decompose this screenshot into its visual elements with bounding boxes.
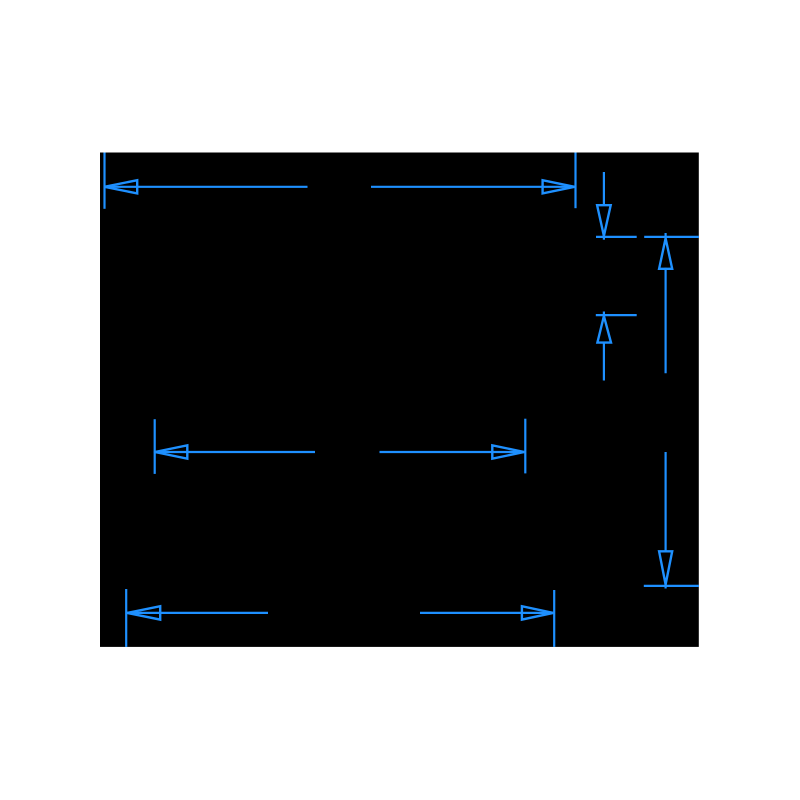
upper witness line left segment xyxy=(596,236,637,238)
small gap dimension up arrowhead xyxy=(597,316,611,343)
small gap dimension down arrowhead xyxy=(597,205,611,236)
height dimension line upper segment xyxy=(664,268,666,374)
bottom dimension left extension line xyxy=(125,589,127,647)
small gap dimension upper leader line xyxy=(603,172,605,206)
bottom dimension right extension line xyxy=(553,590,555,647)
lower witness line xyxy=(596,314,637,316)
middle dimension right extension line xyxy=(524,419,526,474)
height dimension down arrowhead xyxy=(659,551,672,584)
small gap dimension lower leader line xyxy=(603,342,605,381)
bottom dimension line right segment xyxy=(420,612,554,614)
device silhouette rectangle xyxy=(100,153,699,647)
height dimension line lower segment xyxy=(664,452,666,552)
middle dimension line right segment xyxy=(380,451,526,453)
middle dimension line left segment xyxy=(154,451,315,453)
top dimension right arrowhead xyxy=(543,180,575,193)
middle dimension right arrowhead xyxy=(492,445,524,458)
top dimension right extension line xyxy=(574,153,576,209)
middle dimension left arrowhead xyxy=(155,445,188,458)
upper witness line right segment xyxy=(644,236,699,238)
height dimension up arrow tip nub xyxy=(664,233,666,240)
top dimension left arrowhead xyxy=(105,180,138,193)
top dimension line left segment xyxy=(104,186,308,188)
middle dimension left extension line xyxy=(154,419,156,474)
height dimension up arrowhead xyxy=(659,238,672,268)
height dimension bottom witness line xyxy=(644,585,699,587)
top dimension line right segment xyxy=(371,186,576,188)
bottom dimension line left segment xyxy=(127,612,268,614)
bottom dimension left arrowhead xyxy=(127,606,160,619)
height dimension down arrow tip nub xyxy=(664,582,666,589)
small gap dimension down arrow tip nub xyxy=(603,234,605,240)
small gap dimension up arrow tip nub xyxy=(603,312,605,318)
bottom dimension right arrowhead xyxy=(522,606,553,619)
top dimension left extension line xyxy=(103,153,105,209)
